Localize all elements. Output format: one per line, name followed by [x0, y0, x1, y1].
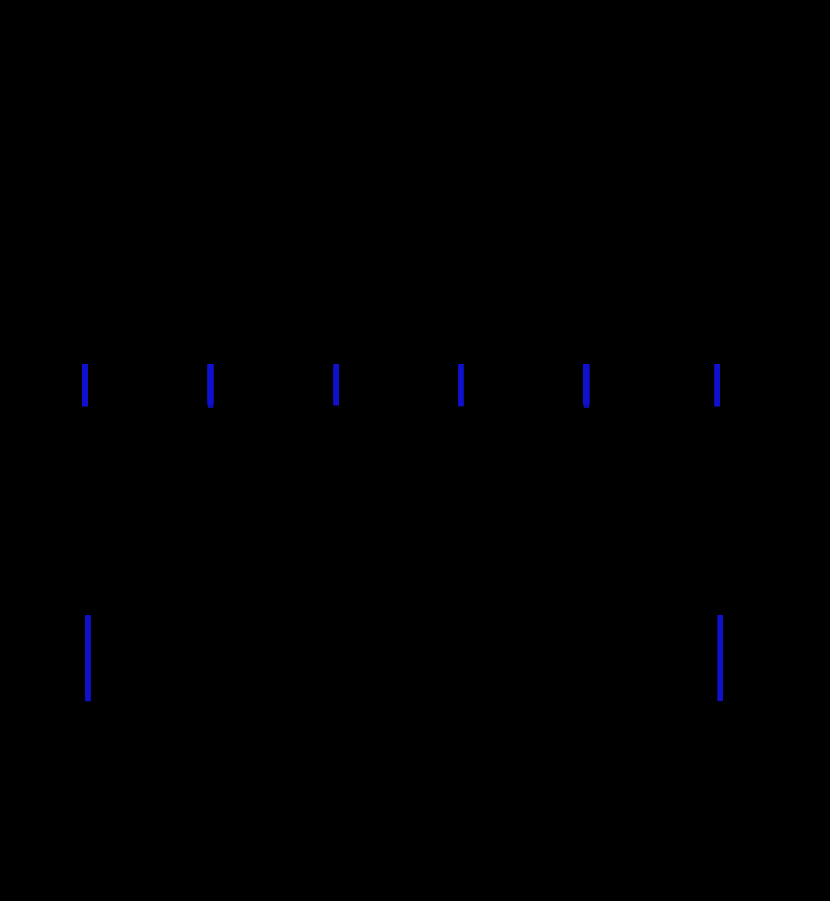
capacitor C8 (right plate, blue)	[717, 615, 723, 701]
capacitor C6 (right plate, blue)	[714, 364, 720, 407]
capacitor C6 (left plate, black)	[702, 364, 708, 406]
wire: left end riser	[39, 385, 42, 658]
node A (top bus / left riser junction)	[37, 382, 44, 389]
capacitor C7 (left plate, black)	[73, 615, 79, 701]
capacitor C2 (right plate, blue)	[207, 364, 214, 408]
wire: bottom bus	[40, 657, 790, 660]
capacitor C5 (right plate, blue)	[583, 364, 590, 408]
node B (bottom bus / ground junction)	[412, 655, 419, 662]
wire: top bus	[40, 384, 790, 387]
wire: right end riser	[789, 385, 792, 658]
capacitor C1 (left plate, black)	[70, 364, 76, 406]
capacitor C7 (right plate, blue)	[85, 615, 91, 701]
capacitor C4 (right plate, blue)	[458, 364, 464, 406]
capacitor C1 (right plate, blue)	[82, 364, 88, 407]
capacitor C5 (left plate, black)	[571, 364, 577, 406]
capacitor C2 (left plate, black)	[195, 364, 201, 406]
capacitor C3 (left plate, black)	[321, 364, 327, 406]
ground	[395, 658, 435, 716]
capacitor C3 (right plate, blue)	[333, 364, 339, 406]
capacitor C8 (left plate, black)	[705, 615, 711, 701]
capacitor C4 (left plate, black)	[446, 364, 452, 406]
